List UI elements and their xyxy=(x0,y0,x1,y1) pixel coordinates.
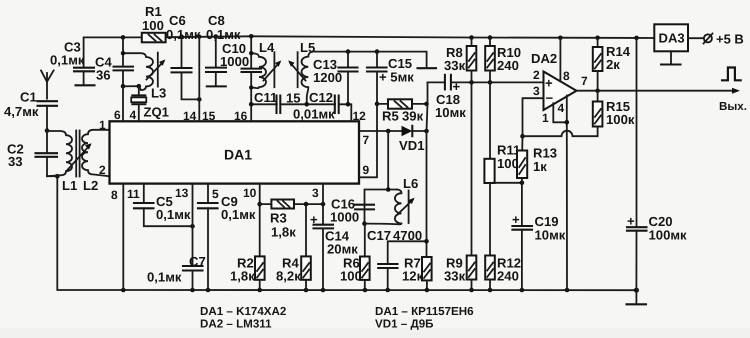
svg-text:0,1мк: 0,1мк xyxy=(156,207,191,222)
capacitor C11 15 xyxy=(254,90,301,113)
svg-text:5: 5 xyxy=(212,187,219,201)
arrow: L5 tuning arrow xyxy=(288,60,305,80)
svg-text:VD1 – Д9Б: VD1 – Д9Б xyxy=(375,318,433,331)
svg-text:240: 240 xyxy=(497,58,519,73)
svg-text:1к: 1к xyxy=(533,159,547,174)
node: R5 right junction xyxy=(424,102,429,107)
inductor L2 xyxy=(82,130,110,193)
capacitor C6 0,1мк xyxy=(166,13,201,99)
node: tank top junction xyxy=(386,187,391,192)
capacitor C14 20мк xyxy=(310,212,358,290)
svg-text:DA3: DA3 xyxy=(659,31,685,46)
wire: pins 1/4 of DA2 to ground bus xyxy=(553,96,567,291)
svg-text:L1: L1 xyxy=(62,178,77,193)
svg-text:14: 14 xyxy=(183,109,197,123)
wire: pin 8 of DA2 to rail xyxy=(559,38,561,82)
svg-text:10: 10 xyxy=(243,186,257,200)
svg-text:+5 В: +5 В xyxy=(716,32,744,47)
svg-text:L5: L5 xyxy=(300,40,315,55)
icon: output pulse symbol xyxy=(721,68,742,81)
node: antenna/L1 junction xyxy=(45,128,50,133)
node: R8 bottom junction xyxy=(469,80,474,85)
capacitor C3 0,1мк xyxy=(50,40,94,85)
node: C6 / pin14 junction xyxy=(197,97,202,102)
svg-text:ZQ1: ZQ1 xyxy=(144,105,169,120)
arrow: L6 tuning arrow xyxy=(398,198,415,215)
wire: pin 13 of DA1 xyxy=(192,184,194,266)
node: output / R14 / R15 junction xyxy=(595,88,600,93)
svg-text:33: 33 xyxy=(8,154,23,169)
resistor R8 33к xyxy=(444,38,476,83)
svg-text:3: 3 xyxy=(533,84,540,98)
node: R3 left junction xyxy=(257,202,262,207)
node: L4 top junction xyxy=(249,51,253,55)
ground: terminal bar on IF line xyxy=(418,67,437,69)
resistor R9 33к xyxy=(444,82,476,290)
svg-text:33к: 33к xyxy=(444,58,466,73)
arrow: L3 tuning arrow xyxy=(147,59,166,79)
capacitor C15 5мк xyxy=(367,49,414,104)
svg-text:+: + xyxy=(453,79,461,94)
svg-text:1000: 1000 xyxy=(330,210,359,225)
svg-text:+: + xyxy=(545,76,553,91)
IC DA1 K174XA2 xyxy=(110,121,360,183)
wire: detector node vertical (R5/VD1/C17/R7) xyxy=(427,82,428,257)
resistor R3 1,8к xyxy=(260,200,323,240)
node: R3 right / R4 junction xyxy=(304,202,309,207)
wire: +5V top supply rail xyxy=(84,37,142,67)
resistor R1 100 xyxy=(142,4,166,42)
svg-text:12: 12 xyxy=(353,109,367,123)
svg-text:0,1мк: 0,1мк xyxy=(50,53,85,68)
ground: C8 terminal bar xyxy=(207,85,226,87)
svg-text:R3: R3 xyxy=(270,211,287,226)
svg-text:15: 15 xyxy=(202,109,216,123)
svg-text:4,7мк: 4,7мк xyxy=(4,104,39,119)
wire: DA2 output line xyxy=(577,90,737,92)
resistor R10 240 xyxy=(485,38,521,83)
resistor R4 8,2к xyxy=(276,204,311,290)
arrow: output arrowhead xyxy=(732,88,740,94)
svg-text:39к: 39к xyxy=(402,109,424,124)
wire: pin 3 feedback jog xyxy=(523,98,544,136)
inductor L1 xyxy=(47,131,77,193)
core: L4 tuning core xyxy=(273,52,275,87)
node: pin 7 / L6 tap junction xyxy=(386,129,391,134)
svg-text:1,8к: 1,8к xyxy=(271,225,296,240)
svg-text:Вых.: Вых. xyxy=(719,100,747,113)
terminal: +5V circle xyxy=(704,34,713,44)
svg-text:10мк: 10мк xyxy=(535,228,566,243)
node: C5 / pin13 junction xyxy=(190,224,195,229)
wire: C11/C12 line to pin 12 xyxy=(251,104,351,121)
capacitor C9 0,1мк xyxy=(198,184,256,290)
node: R5 left junction xyxy=(375,102,380,107)
core: L5 tuning core xyxy=(297,52,299,87)
svg-text:100к: 100к xyxy=(606,112,635,127)
node: feedback left junction xyxy=(520,134,525,139)
svg-text:100мк: 100мк xyxy=(649,228,688,243)
node: pin16 line junction xyxy=(249,102,254,107)
wire: pin 16 of DA1 xyxy=(250,104,252,121)
node: C13 bottom junction xyxy=(346,102,351,107)
svg-text:0,1мк: 0,1мк xyxy=(166,27,201,42)
inductor L5 xyxy=(300,40,315,104)
node: L5 bottom junction xyxy=(304,102,309,107)
capacitor C7 0,1мк xyxy=(147,254,206,290)
svg-text:L2: L2 xyxy=(83,178,98,193)
wire: bottom ground bus xyxy=(57,176,636,290)
svg-text:100: 100 xyxy=(497,156,519,171)
svg-text:2: 2 xyxy=(99,163,106,177)
svg-text:DA1 – K174XA2: DA1 – K174XA2 xyxy=(200,305,286,318)
diode VD1 Д9Б xyxy=(399,126,427,153)
svg-text:DA1 – КР1157ЕН6: DA1 – КР1157ЕН6 xyxy=(375,305,474,318)
svg-text:C11: C11 xyxy=(254,90,277,105)
svg-text:100: 100 xyxy=(142,18,164,33)
node: L4 bottom junction xyxy=(249,85,253,89)
node: R10 bottom junction xyxy=(488,80,493,85)
capacitor C10 1000 xyxy=(220,36,261,104)
wire: tank top line and L6 tap xyxy=(365,131,398,224)
node: L3 bottom junction xyxy=(121,84,126,89)
resistor R15 100к xyxy=(593,91,635,127)
svg-text:0,1мк: 0,1мк xyxy=(221,207,256,222)
inductor L6 xyxy=(365,176,419,224)
svg-text:11: 11 xyxy=(127,187,140,201)
wire: feedback line with hop xyxy=(523,127,598,137)
node: rail junction dots xyxy=(121,34,639,40)
resistor R14 2к xyxy=(593,38,631,91)
svg-text:9: 9 xyxy=(363,163,370,177)
node: C17/R7 junction xyxy=(424,239,429,244)
svg-text:C12: C12 xyxy=(309,90,333,105)
capacitor C8 0,1мк xyxy=(206,13,241,85)
svg-text:0,01мк: 0,01мк xyxy=(293,107,335,122)
wire: R11/R13/C19 node jog xyxy=(490,182,522,184)
wire: pin 10 of DA1 to R2 xyxy=(259,184,261,257)
op-amp DA2 LM311 xyxy=(531,51,577,110)
svg-text:−: − xyxy=(546,91,554,106)
svg-text:1000: 1000 xyxy=(220,54,249,69)
svg-text:4: 4 xyxy=(130,108,137,122)
capacitor C20 100мк xyxy=(627,38,687,290)
svg-text:20мк: 20мк xyxy=(327,242,358,257)
svg-text:1,8к: 1,8к xyxy=(230,269,255,284)
svg-text:16: 16 xyxy=(234,109,248,123)
resistor R7 12к xyxy=(402,256,432,291)
regulator DA3 КР1157ЕН6 xyxy=(654,24,688,51)
inductor L4 xyxy=(251,40,275,88)
node: pin1/4 junction xyxy=(565,120,570,125)
core: L3 tuning core xyxy=(157,53,159,87)
svg-text:0,1мк: 0,1мк xyxy=(147,270,182,285)
wire: pin 8 of DA1 to ground bus xyxy=(122,184,124,290)
svg-text:C6: C6 xyxy=(169,13,186,28)
svg-text:DA2 – LM311: DA2 – LM311 xyxy=(200,318,272,331)
svg-text:0,1мк: 0,1мк xyxy=(206,27,241,42)
svg-text:10мк: 10мк xyxy=(435,105,466,120)
wire: DA3 output to +5V terminal xyxy=(688,37,704,39)
svg-text:100: 100 xyxy=(340,269,362,284)
capacitor C16 1000 xyxy=(330,197,374,225)
capacitor C19 10мк xyxy=(512,183,566,290)
capacitor C12 0,01мк xyxy=(293,90,339,122)
svg-text:33к: 33к xyxy=(444,269,466,284)
svg-text:12к: 12к xyxy=(402,269,424,284)
capacitor C4 36 xyxy=(95,37,133,86)
svg-text:8,2к: 8,2к xyxy=(276,269,301,284)
svg-text:DA1: DA1 xyxy=(224,147,252,163)
capacitor C17 4700 xyxy=(367,228,427,290)
capacitor C1 4,7мк xyxy=(4,90,57,131)
wire: pin 7 line of DA1 xyxy=(359,130,402,132)
svg-text:2: 2 xyxy=(533,68,540,82)
svg-text:R1: R1 xyxy=(145,4,162,19)
svg-text:1: 1 xyxy=(99,118,106,132)
antenna WA1 xyxy=(41,71,54,99)
node: pin 3 junction xyxy=(321,202,326,207)
wire: pin 9 of DA1 to C15/R5 line xyxy=(359,104,377,177)
resistor R11 100 xyxy=(484,82,520,183)
wire: pin 3 of DA1 xyxy=(322,184,324,225)
svg-text:3: 3 xyxy=(312,186,319,200)
svg-text:15: 15 xyxy=(286,91,301,106)
node: ground bus junction dots xyxy=(55,174,639,293)
svg-text:VD1: VD1 xyxy=(399,138,424,153)
node: tank bottom / R6 junction xyxy=(362,221,367,226)
arrow: L1/L2 tuning arrow xyxy=(67,143,92,171)
node: R11/R13/C19 junction xyxy=(520,181,525,186)
svg-text:7: 7 xyxy=(363,133,370,147)
wire: pin 6 of DA1 xyxy=(122,86,124,121)
svg-text:7: 7 xyxy=(581,74,588,88)
svg-text:2к: 2к xyxy=(606,57,620,72)
wire: IF top line (L5/C13/C15) xyxy=(313,52,427,67)
resistor R12 240 xyxy=(485,183,521,290)
svg-text:13: 13 xyxy=(175,186,189,200)
inductor L3 xyxy=(123,53,166,100)
node: VD1 cathode junction xyxy=(424,129,429,134)
arrow: L4 tuning arrow xyxy=(264,60,282,80)
svg-text:L4: L4 xyxy=(259,40,275,55)
svg-text:36: 36 xyxy=(96,68,111,83)
ground: C3 terminal bar xyxy=(76,84,95,86)
core: L6 tuning core xyxy=(408,191,410,224)
svg-text:L3: L3 xyxy=(151,86,166,101)
svg-text:DA2: DA2 xyxy=(531,51,557,66)
resistor R13 1к xyxy=(517,136,557,183)
core: L1/L2 transformer core xyxy=(76,131,79,177)
svg-text:C1: C1 xyxy=(20,90,37,105)
ground: main ground symbol at bus right end xyxy=(627,290,647,304)
resistor R2 1,8к xyxy=(230,256,265,291)
crystal ZQ1 xyxy=(131,84,169,121)
svg-text:8: 8 xyxy=(563,69,570,83)
svg-text:L6: L6 xyxy=(403,176,418,191)
capacitor C2 33 xyxy=(7,131,57,177)
svg-text:240: 240 xyxy=(497,269,519,284)
svg-text:R5: R5 xyxy=(382,109,399,124)
resistor R5 39к xyxy=(377,99,427,123)
svg-text:+: + xyxy=(512,212,520,227)
svg-text:C8: C8 xyxy=(208,13,225,28)
capacitor C13 1200 xyxy=(313,49,358,104)
svg-text:1: 1 xyxy=(542,111,549,125)
svg-text:8: 8 xyxy=(111,188,118,202)
node: L3 top junction xyxy=(121,51,125,55)
wire: pin 14/15 of DA1 to rail xyxy=(198,37,200,122)
ground: DA3 ground symbol xyxy=(661,51,681,64)
capacitor C5 0,1мк xyxy=(134,184,193,227)
svg-text:6: 6 xyxy=(114,108,121,122)
svg-text:4: 4 xyxy=(558,101,565,115)
capacitor C18 10мк xyxy=(428,75,544,120)
resistor R6 100 xyxy=(340,224,370,290)
